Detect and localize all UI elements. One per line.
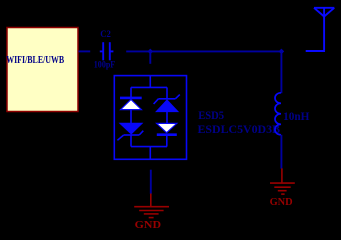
wire ESD5 to ground: [150, 170, 152, 194]
svg-text:100pF: 100pF: [94, 59, 116, 69]
antenna ANT1: [314, 8, 334, 51]
wire inductor to ground: [280, 135, 282, 169]
wire node B down to inductor: [280, 51, 282, 93]
svg-text:ESD5: ESD5: [198, 108, 224, 122]
wire node A down to ESD5: [149, 51, 151, 63]
diode D1a (left top, white, cathode up): [120, 87, 142, 123]
inductor L1: [275, 93, 281, 135]
svg-text:WIFI/BLE/UWB: WIFI/BLE/UWB: [6, 54, 64, 66]
ground GND left: [134, 194, 169, 218]
svg-text:C2: C2: [100, 29, 111, 39]
diode D1b (left bottom, blue TVS, cathode down): [117, 123, 143, 146]
ground GND right: [270, 168, 295, 194]
svg-text:10nH: 10nH: [283, 109, 310, 123]
wire antenna: [306, 50, 324, 52]
wire C2 to inductor node: [126, 50, 281, 52]
diode D2b (right bottom, white, cathode down): [157, 123, 177, 146]
wire box to C2: [79, 50, 91, 52]
ESD array U2 box: [114, 76, 186, 160]
junction node A: [148, 49, 154, 55]
svg-text:GND: GND: [135, 219, 161, 231]
junction node B: [279, 49, 285, 55]
capacitor C2: [100, 42, 114, 60]
diode D2a (right top, blue TVS, cathode up): [154, 87, 180, 123]
svg-text:GND: GND: [270, 196, 293, 208]
svg-text:ESDLC5V0D3B: ESDLC5V0D3B: [198, 122, 281, 136]
block U1 WIFI/BLE/UWB: [6, 28, 78, 112]
